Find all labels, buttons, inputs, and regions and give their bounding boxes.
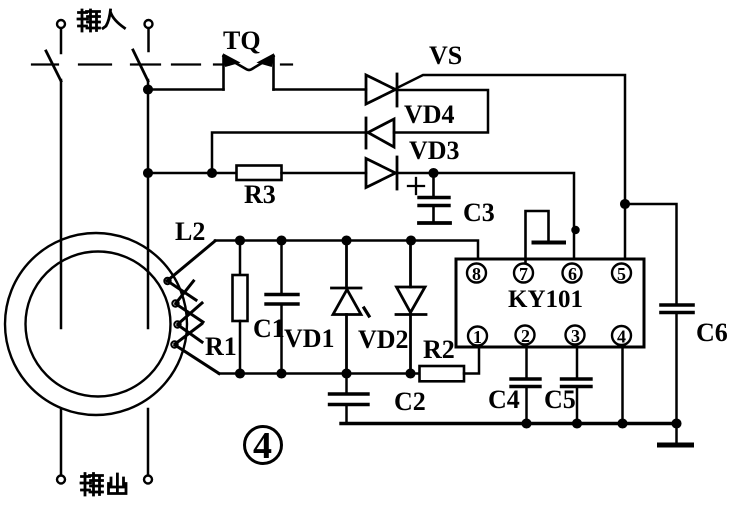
wire output left (60, 409, 63, 475)
pin 8 (467, 264, 486, 285)
transformer core toroid (5, 233, 187, 415)
svg-text:VD1: VD1 (284, 324, 335, 353)
wire row3 left (148, 172, 237, 175)
pin 5 (612, 264, 631, 285)
node bus pin4 (619, 420, 627, 428)
svg-text:C2: C2 (394, 387, 426, 416)
node bus C6 (673, 420, 681, 428)
label VD2 (358, 325, 409, 354)
ground (660, 424, 692, 446)
label C5 (544, 385, 576, 414)
wire pin4 to bus (621, 347, 624, 424)
node bottom VD2 (407, 370, 415, 378)
wire top bus (215, 241, 478, 264)
label C4 (488, 385, 520, 414)
wire ground bus (341, 422, 677, 425)
input terminal right (145, 20, 153, 51)
svg-text:C5: C5 (544, 385, 576, 414)
capacitor C1 (266, 241, 298, 374)
switch S1 blade (46, 51, 61, 81)
label R2 (423, 335, 455, 364)
wire row1 left of TQ (148, 88, 224, 91)
svg-text:3: 3 (571, 326, 580, 346)
svg-text:2: 2 (521, 326, 530, 346)
pin 1 (468, 327, 487, 348)
node bus C4 (523, 420, 531, 428)
figure number 4 (245, 425, 282, 467)
svg-text:L2: L2 (175, 217, 205, 246)
pin 3 (566, 326, 585, 347)
svg-text:6: 6 (568, 264, 577, 284)
label C6 (696, 318, 728, 347)
label L2 (175, 217, 205, 246)
pin 2 (516, 326, 535, 347)
pin 6 (563, 264, 582, 285)
wire VD3 cathode to pin6 (397, 173, 574, 263)
svg-text:C3: C3 (463, 198, 495, 227)
node C3 tap (430, 169, 438, 177)
node at right column row1 (144, 86, 152, 94)
svg-text:R2: R2 (423, 335, 455, 364)
thermal breaker TQ (224, 54, 274, 90)
winding L2 (164, 241, 219, 374)
wire VS cathode to VD4 loop (394, 90, 488, 133)
svg-text:R3: R3 (244, 180, 276, 209)
label R3 (244, 180, 276, 209)
node gate/C6 branch (621, 200, 629, 208)
wire right column (147, 80, 150, 328)
diode VD1 (332, 241, 370, 374)
mechanical linkage dashed line (32, 63, 292, 65)
label KY101 (508, 286, 583, 313)
node bottom C1 (278, 370, 286, 378)
pin 4 (612, 326, 631, 347)
capacitor C4 (511, 347, 540, 424)
thyristor VS (366, 74, 397, 106)
label C3 (463, 198, 495, 227)
capacitor C2 (330, 374, 369, 424)
resistor R1 (233, 241, 248, 374)
svg-text:1: 1 (473, 327, 482, 347)
label 输出 (output) (81, 474, 126, 496)
wire bottom row (219, 372, 420, 375)
node bottom R1 (236, 370, 244, 378)
label C2 (394, 387, 426, 416)
resistor R3 (237, 166, 282, 181)
node on pin6 lead (573, 227, 579, 233)
svg-text:C6: C6 (696, 318, 728, 347)
svg-text:5: 5 (617, 264, 626, 284)
pulse symbol at pin 7 (526, 211, 565, 263)
node top bus VD1 (343, 237, 351, 245)
output terminal left (57, 476, 65, 484)
svg-text:C1: C1 (253, 314, 285, 343)
label R1 (205, 332, 237, 361)
svg-text:4: 4 (253, 425, 272, 467)
wire left column (60, 80, 63, 328)
svg-text:VD3: VD3 (409, 136, 460, 165)
diode VD2 (396, 241, 426, 374)
switch S2 blade (133, 50, 148, 81)
svg-text:TQ: TQ (223, 26, 261, 55)
svg-text:7: 7 (519, 264, 528, 284)
node bottom VD1 (343, 370, 351, 378)
node top bus C1 (278, 237, 286, 245)
input terminal left (57, 20, 65, 53)
label C1 (253, 314, 285, 343)
node top bus VD2 (407, 237, 415, 245)
wire VD4 to riser (212, 133, 366, 174)
svg-text:VS: VS (429, 41, 462, 70)
label VD4 (404, 100, 455, 129)
wire row1 right of TQ (274, 88, 367, 91)
svg-text:R1: R1 (205, 332, 237, 361)
capacitor C6 (625, 204, 693, 424)
node at right column row3 (144, 169, 152, 177)
svg-text:4: 4 (617, 327, 626, 347)
svg-text:8: 8 (472, 264, 481, 284)
label 输入 (input) (78, 10, 125, 31)
label VS (429, 41, 462, 70)
wire output right (147, 409, 150, 475)
IC U1 KY101 body (456, 259, 644, 347)
diode VD3 (366, 157, 397, 189)
capacitor C3 polarized (408, 173, 450, 223)
capacitor C5 (562, 347, 592, 424)
svg-text:C4: C4 (488, 385, 520, 414)
wire VS gate (397, 75, 625, 263)
node R3 left (208, 169, 216, 177)
svg-text:KY101: KY101 (508, 286, 583, 313)
pin 7 (514, 264, 533, 285)
label TQ (223, 26, 261, 55)
label VD1 (284, 324, 335, 353)
output terminal right (144, 476, 152, 484)
node top bus R1 (236, 237, 244, 245)
wire R2 to pin1 (464, 347, 479, 374)
wire R3 to VD3 (282, 172, 367, 175)
svg-text:VD2: VD2 (358, 325, 409, 354)
node bus C5 (573, 420, 581, 428)
svg-text:VD4: VD4 (404, 100, 455, 129)
label VD3 (409, 136, 460, 165)
resistor R2 (420, 366, 465, 381)
diode VD4 (366, 118, 394, 148)
